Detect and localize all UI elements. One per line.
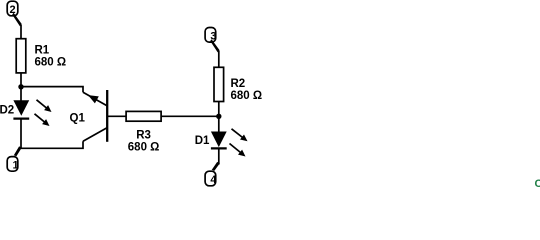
wire node2 to R1: [20, 25, 22, 40]
D1 light arrow 2: [230, 144, 246, 157]
svg-text:680 Ω: 680 Ω: [35, 56, 67, 68]
LED D2: [0, 100, 29, 118]
wire junction to Q1 collector: [21, 87, 83, 93]
resistor R1: [16, 39, 66, 73]
wire Q1 base to R3: [108, 115, 127, 117]
node junction right: [216, 114, 221, 119]
svg-text:R1: R1: [35, 44, 50, 56]
node 3: [205, 28, 220, 53]
wire R3 to right junction: [161, 115, 219, 117]
wire R2 to junction: [218, 102, 220, 117]
svg-text:4: 4: [210, 174, 217, 186]
svg-text:1: 1: [13, 160, 19, 172]
resistor R3: [126, 111, 161, 153]
LED D1: [195, 132, 227, 149]
wire corner to Q1 emitter: [21, 141, 83, 148]
svg-text:Q1: Q1: [70, 112, 86, 124]
svg-text:R3: R3: [136, 129, 151, 141]
svg-text:680 Ω: 680 Ω: [128, 141, 160, 153]
svg-text:D2: D2: [0, 104, 14, 116]
svg-text:R2: R2: [231, 78, 246, 90]
svg-text:D1: D1: [195, 135, 210, 147]
wire junction to D2: [20, 87, 22, 101]
transistor Q1: [70, 90, 108, 142]
wire D1 to node 4: [218, 148, 220, 164]
svg-text:C: C: [535, 178, 540, 189]
node 4: [205, 162, 220, 186]
node junction left: [18, 84, 23, 89]
wire node3 to R2: [218, 51, 220, 68]
wire D2 to corner: [20, 119, 22, 149]
D1 light arrow 1: [232, 129, 248, 142]
node 1: [7, 146, 22, 171]
wire R1 to junction: [20, 73, 22, 87]
D2 light arrow 1: [37, 100, 52, 112]
node 2: [7, 1, 22, 26]
svg-text:680 Ω: 680 Ω: [231, 90, 263, 102]
D2 light arrow 2: [35, 114, 50, 126]
wire junction to D1: [218, 116, 220, 132]
resistor R2: [214, 67, 262, 102]
watermark logo fragment: [535, 178, 540, 190]
